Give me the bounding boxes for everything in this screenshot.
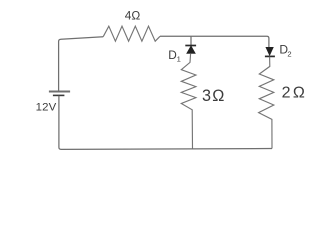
svg-text:4Ω: 4Ω [125, 9, 141, 23]
svg-text:2: 2 [287, 50, 291, 59]
resistor R2 3ohm vertical zigzag with bottom lead [181, 53, 196, 148]
diode D1 triangle (pointing up) [187, 46, 196, 54]
diode D2 cathode bar [265, 55, 275, 57]
svg-text:1: 1 [177, 55, 181, 64]
svg-text:D: D [168, 48, 177, 62]
svg-text:12V: 12V [36, 101, 57, 113]
battery B1 short plate [53, 94, 65, 96]
svg-text:3Ω: 3Ω [202, 87, 226, 105]
resistor R3 2ohm vertical zigzag with bottom lead [259, 57, 274, 149]
wire D1 branch drop from top wire [190, 36, 192, 45]
diode D1 cathode bar [185, 45, 196, 47]
wire left vertical + top-left segment to resistor [59, 37, 104, 92]
battery B1 long plate [49, 91, 70, 93]
resistor R1 4ohm zigzag [103, 26, 160, 41]
svg-text:2: 2 [282, 84, 291, 101]
diode D2 triangle (pointing down) [266, 47, 273, 55]
svg-text:Ω: Ω [293, 84, 305, 101]
wire top-right segment with corner down to D2 [160, 36, 269, 47]
wire battery negative down and bottom wire to right [59, 96, 272, 150]
